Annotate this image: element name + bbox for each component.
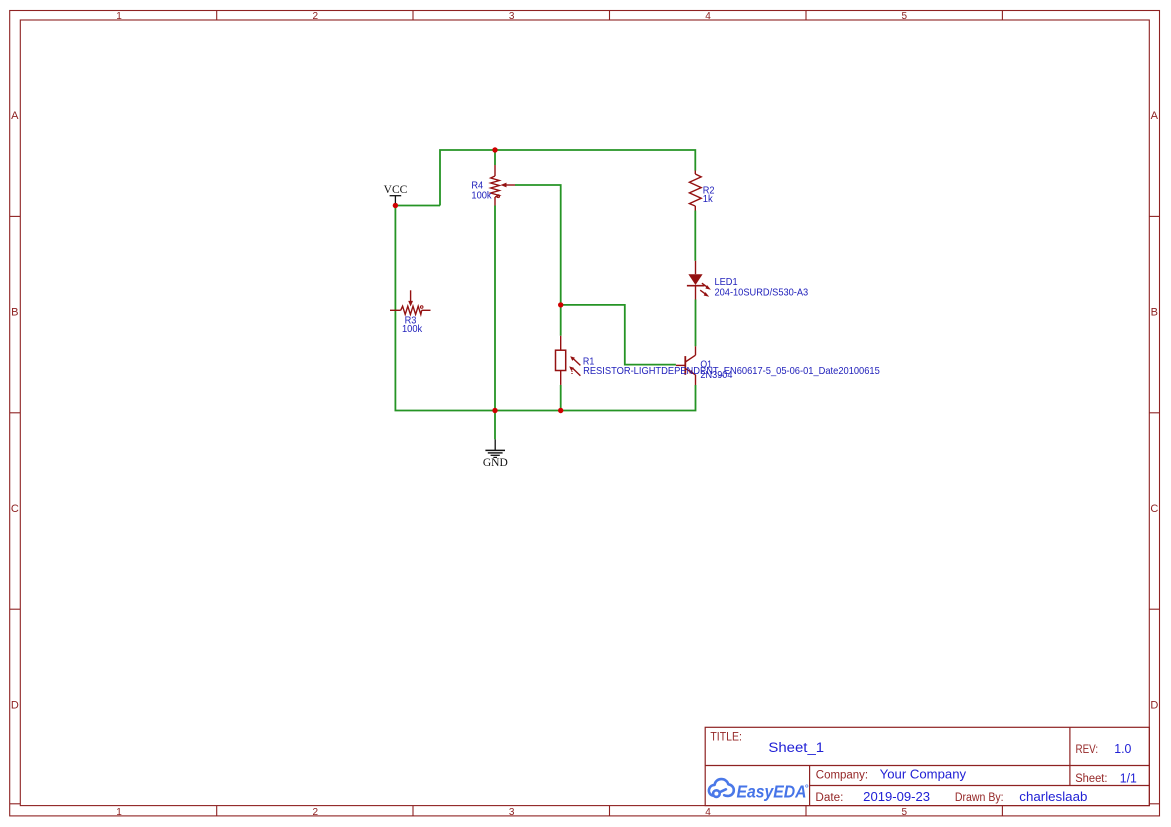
svg-text:1/1: 1/1 [1120,771,1137,785]
svg-text:2019-09-23: 2019-09-23 [863,790,930,804]
svg-text:A: A [11,110,19,122]
svg-text:VCC: VCC [384,184,408,196]
svg-text:2: 2 [313,807,319,818]
svg-text:1k: 1k [703,194,714,205]
svg-text:Q1: Q1 [700,359,712,370]
svg-text:C: C [1150,503,1158,515]
svg-text:1: 1 [116,11,122,22]
svg-text:A: A [1151,110,1159,122]
svg-text:3: 3 [509,11,515,22]
svg-text:B: B [1151,307,1158,319]
svg-text:Sheet_1: Sheet_1 [768,740,824,755]
svg-text:D: D [1150,699,1158,711]
svg-text:100k: 100k [402,324,423,335]
svg-text:REV:: REV: [1076,744,1099,756]
svg-text:Company:: Company: [816,770,868,782]
svg-text:2: 2 [313,11,319,22]
svg-text:LED1: LED1 [715,277,738,288]
svg-text:D: D [11,699,19,711]
svg-text:TITLE:: TITLE: [710,729,742,743]
svg-text:4: 4 [705,807,711,818]
svg-text:Drawn By:: Drawn By: [955,792,1004,804]
svg-text:charleslaab: charleslaab [1019,790,1087,804]
svg-text:5: 5 [902,11,908,22]
svg-text:2N3904: 2N3904 [700,370,732,381]
svg-text:Sheet:: Sheet: [1075,773,1107,785]
svg-text:EasyEDA: EasyEDA [737,782,807,802]
svg-text:GND: GND [483,457,508,469]
svg-text:C: C [11,503,19,515]
svg-text:1.0: 1.0 [1114,742,1131,756]
svg-text:4: 4 [705,11,711,22]
svg-text:Date:: Date: [815,792,843,804]
svg-text:Your Company: Your Company [880,768,967,782]
svg-text:1: 1 [116,807,122,818]
svg-text:100k: 100k [471,190,492,201]
svg-text:B: B [11,307,18,319]
svg-text:204-10SURD/S530-A3: 204-10SURD/S530-A3 [715,287,809,298]
svg-text:5: 5 [902,807,908,818]
svg-text:3: 3 [509,807,515,818]
